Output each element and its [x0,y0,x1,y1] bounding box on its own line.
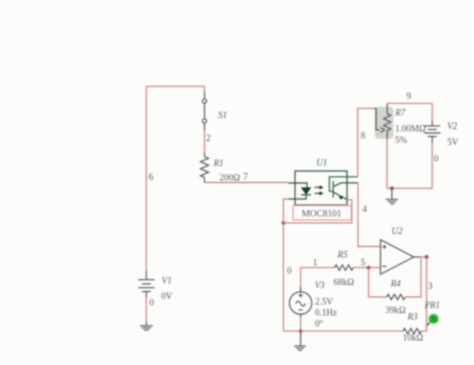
U1 collector pin [334,183,358,186]
MOC8101 label box [293,206,352,221]
potentiometer R7 highlight [375,107,394,139]
probe PR1 pointer [427,322,431,326]
svg-text:0.1Hz: 0.1Hz [315,308,337,318]
svg-text:1: 1 [313,258,318,268]
optocoupler U1 box [295,171,347,205]
U1 LED cathode bar [301,194,311,196]
wire net 0 bottom rail [283,330,403,332]
svg-text:R7: R7 [394,108,405,118]
potentiometer R7 wiper [375,108,380,129]
junction net 3 [425,255,429,259]
svg-text:5%: 5% [395,135,408,145]
svg-text:0V: 0V [161,291,173,301]
svg-text:1.00MΩ: 1.00MΩ [395,123,426,133]
U1 coupling arrow upper [315,186,321,188]
resistor R5 [335,265,354,270]
junction net 5 [367,266,371,270]
ground under V3 [294,331,306,350]
wire V3 bottom [300,318,302,332]
svg-text:2.5V: 2.5V [315,297,333,307]
U1 LED anode lead [289,183,308,188]
svg-text:U1: U1 [316,158,327,168]
svg-text:R3: R3 [407,312,418,322]
svg-text:0: 0 [287,267,292,277]
wire net 0 emitter to junction [283,200,351,223]
ground near R7 [386,188,398,203]
wire net 8 [358,108,375,176]
svg-text:MOC8101: MOC8101 [302,210,342,220]
svg-text:S1: S1 [218,110,227,120]
wire net 0 right loop [387,140,432,189]
ground under V1 [140,322,153,330]
wire net 0 cathode down [283,199,288,331]
U1 LED cathode lead [289,195,307,199]
op-amp output lead [414,256,420,258]
svg-text:V3: V3 [315,280,325,290]
svg-text:0: 0 [434,155,439,165]
svg-text:R5: R5 [337,249,348,259]
svg-text:68kΩ: 68kΩ [334,277,355,287]
wire net 3 [420,257,427,331]
svg-text:R1: R1 [213,158,224,168]
U1 base loop pin [329,177,357,192]
svg-text:R4: R4 [390,279,401,289]
junction net 0 at V3 [299,329,303,333]
U1 emitter pin [334,192,347,199]
U1 LED triangle [302,188,311,194]
wire net 2 [204,131,206,153]
svg-text:3: 3 [428,282,433,292]
wire net 7 [205,182,289,184]
wire R3 to net 3 [421,330,427,332]
svg-text:PR1: PR1 [424,300,441,310]
svg-text:7: 7 [243,173,248,183]
svg-text:2: 2 [206,134,211,144]
wire net 5 [353,267,380,269]
battery V1 [138,271,154,298]
svg-text:0: 0 [149,299,154,309]
svg-text:V1: V1 [162,276,172,286]
op-amp U2 [381,240,414,275]
svg-text:8: 8 [361,132,366,142]
svg-text:V2: V2 [447,121,457,131]
svg-text:0°: 0° [315,318,324,328]
source V3 [289,287,311,318]
battery V2 [424,121,440,143]
resistor R4 [387,294,406,299]
svg-text:5: 5 [361,258,366,268]
wire feedback right [405,257,421,297]
svg-text:5V: 5V [447,137,459,147]
svg-text:U2: U2 [392,226,403,236]
wire net 4 [358,183,381,247]
probe PR1 [428,313,440,325]
svg-text:10kΩ: 10kΩ [403,333,424,343]
wire net 9 [387,103,432,121]
U1 coupling arrow lower [315,192,321,194]
svg-text:4: 4 [362,205,367,215]
switch S1 [202,86,206,130]
op-amp minus mark [382,265,386,267]
wire net 1 [301,268,335,287]
svg-text:6: 6 [149,173,154,183]
wire V1 to ground [145,297,147,322]
svg-text:200Ω: 200Ω [220,172,241,182]
wire net 6 left vertical [145,86,147,270]
resistor R3 [403,328,421,333]
wire net 6 top horizontal [146,85,204,87]
wire feedback left [369,268,387,297]
potentiometer R7 body [384,103,391,139]
svg-text:39kΩ: 39kΩ [385,305,406,315]
svg-text:V: V [431,316,436,323]
U1 phototransistor base bar [332,181,334,198]
junction net 0 [282,221,286,225]
svg-text:9: 9 [406,92,411,102]
junction net 0 ground tap [390,186,394,190]
op-amp plus mark [382,245,386,249]
resistor R1 [201,152,209,182]
